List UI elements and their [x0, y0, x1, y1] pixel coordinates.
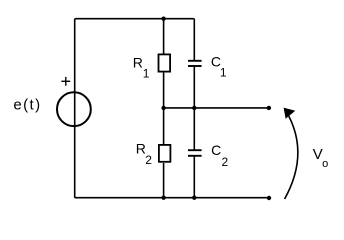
wire left vertical: [74, 19, 76, 198]
junction dot bottom R-branch: [161, 196, 165, 200]
wire bottom horizontal: [75, 197, 269, 199]
arrowhead: [284, 108, 296, 119]
svg-text:o: o: [322, 158, 328, 170]
voltage source e(t): [57, 92, 91, 126]
svg-text:C: C: [211, 142, 221, 158]
terminal dot output top: [267, 106, 271, 110]
label C1: [211, 54, 227, 80]
resistor R1: [159, 54, 171, 71]
wire R-branch top: [163, 19, 165, 54]
junction dot bottom C-branch: [192, 196, 196, 200]
svg-text:1: 1: [220, 66, 227, 80]
wire top horizontal: [75, 18, 195, 20]
plus sign: [61, 77, 70, 86]
wire C-branch bottom: [193, 156, 195, 198]
label R1: [133, 55, 150, 81]
svg-text:R: R: [133, 55, 143, 71]
junction dot middle C-branch: [192, 106, 196, 110]
label Vo: [313, 146, 328, 170]
label R2: [136, 141, 153, 167]
wire C-branch top: [193, 19, 195, 61]
capacitor C1: [188, 61, 202, 66]
wire C-branch middle: [193, 66, 195, 150]
resistor R2: [159, 145, 171, 162]
arrow arc Vo: [285, 116, 298, 200]
capacitor C2: [188, 150, 202, 156]
wire R-branch bottom: [163, 163, 165, 198]
junction dot top R-branch: [161, 17, 165, 21]
terminal dot output bottom: [267, 196, 271, 200]
svg-text:e(t): e(t): [13, 97, 41, 114]
wire middle horizontal output: [164, 107, 269, 109]
svg-text:2: 2: [145, 153, 152, 167]
junction dot middle R-branch: [161, 106, 165, 110]
wire R-branch middle: [163, 73, 165, 145]
label C2: [211, 142, 228, 169]
svg-text:2: 2: [222, 155, 229, 169]
svg-text:1: 1: [143, 66, 150, 80]
